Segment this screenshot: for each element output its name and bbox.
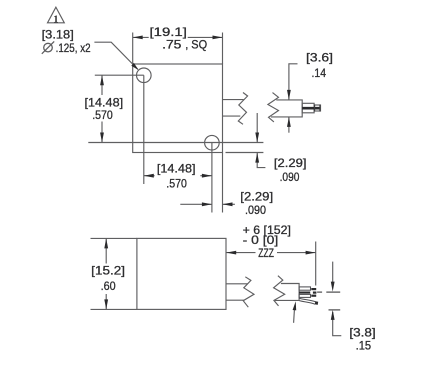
ZZZ dimension line right part: [277, 252, 316, 254]
triangle flag note 1: [48, 7, 65, 23]
dimension line 14.48 bottom: [144, 175, 155, 177]
svg-text:[15.2]: [15.2]: [91, 264, 125, 278]
svg-text:.14: .14: [312, 66, 327, 80]
pin tip end bars: [314, 105, 316, 112]
svg-text:.60: .60: [101, 279, 116, 293]
body outline rectangle (side view): [137, 238, 226, 309]
pin tip outline: [314, 105, 320, 111]
arrowhead 3.6 up: [287, 117, 291, 127]
svg-text:[2.29]: [2.29]: [274, 156, 307, 170]
svg-text:.090: .090: [280, 170, 300, 184]
break zigzag (top view wires): [238, 93, 247, 125]
arrowhead 2.29 mid right: [223, 202, 233, 206]
dimension 2.29 right upper shaft: [256, 113, 258, 143]
extension line vertical from top-left hole center: [143, 75, 145, 184]
svg-text:.125, x2: .125, x2: [56, 41, 91, 55]
diameter symbol slash: [42, 41, 54, 53]
svg-text:[3.8]: [3.8]: [349, 326, 375, 340]
arrowhead 3.8 down: [331, 282, 335, 292]
extension line top (15.2): [91, 237, 137, 239]
arrowhead 14.48 bottom right: [202, 174, 212, 178]
tick below bent lead (3.8): [329, 309, 341, 311]
dimension line 2.29 below square left part: [180, 203, 212, 205]
square bottom edge extension right: [226, 152, 264, 154]
dimension line 19.1 top: [133, 36, 149, 38]
pin side view body break zigzag: [268, 93, 279, 122]
bent bottom lead outline: [299, 298, 315, 304]
bottom lead pin tip solid: [311, 295, 316, 297]
arrowhead 2.29 right up: [255, 153, 259, 163]
hole top-left: [137, 68, 152, 83]
svg-text:.570: .570: [166, 176, 187, 190]
ZZZ dimension line left part: [226, 252, 255, 254]
extension line vertical from bottom-right hole center: [211, 143, 213, 213]
svg-text:ZZZ: ZZZ: [258, 246, 274, 260]
top lead pin tip solid: [311, 288, 316, 290]
svg-text:[14.48]: [14.48]: [157, 162, 196, 176]
arrowhead 2.29 mid left: [202, 202, 212, 206]
leader arrow shaft to bent lead: [293, 308, 296, 323]
dimension line 14.48 left: [101, 75, 103, 95]
arrowhead 3.6 down: [287, 90, 291, 100]
wire bottom (side view): [226, 299, 244, 301]
extension line horizontal at top-left hole center: [95, 74, 144, 76]
arrowhead 14.48 bottom left: [144, 174, 154, 178]
extension line left edge up (19.1 dim): [132, 33, 134, 65]
svg-text:.15: .15: [356, 339, 372, 353]
svg-text:[14.48]: [14.48]: [85, 95, 124, 109]
pin side view body: [271, 100, 302, 117]
dimension line 2.29 below square right part: [223, 203, 235, 205]
dimension line 15.2: [105, 238, 107, 263]
svg-text:.090: .090: [245, 203, 266, 217]
arrowhead 14.48 left bottom: [100, 133, 104, 143]
dimension 3.6 upper shaft with foot: [289, 64, 298, 100]
middle lead solid bar: [299, 292, 310, 294]
arrowhead 19.1 left: [133, 36, 143, 40]
hole bottom-right: [205, 135, 220, 150]
lead detail break zigzag: [274, 276, 285, 306]
middle lead tip solid: [313, 292, 317, 294]
extension line right edge up and down: [222, 33, 224, 65]
arrowhead 15.2 up: [104, 238, 108, 248]
arrowhead 3.8 up: [331, 310, 335, 320]
svg-text:, SQ: , SQ: [185, 37, 207, 51]
bent lead tip solid: [315, 301, 318, 305]
centerline dash-dot at lead cluster: [317, 291, 322, 293]
arrowhead ZZZ right: [306, 251, 316, 255]
wire top (top view): [223, 99, 244, 101]
dimension 3.8 upper shaft: [332, 262, 334, 284]
arrowhead 19.1 right: [213, 36, 223, 40]
arrowhead 15.2 down: [104, 299, 108, 309]
ZZZ extension line at lead tips: [315, 242, 317, 286]
dimension 3.8 lower shaft with foot: [333, 312, 342, 336]
svg-text:.75: .75: [162, 37, 182, 51]
svg-text:[3.18]: [3.18]: [42, 28, 74, 42]
body outline square (top view): [133, 64, 223, 153]
lead detail block: [275, 284, 299, 301]
svg-text:[2.29]: [2.29]: [240, 190, 273, 204]
wire top (side view): [226, 283, 248, 285]
break zigzag (side view wires): [243, 277, 254, 307]
svg-text:.570: .570: [92, 108, 113, 122]
svg-text:[3.6]: [3.6]: [306, 51, 333, 65]
dimension 2.29 right lower shaft and foot: [257, 153, 265, 168]
leader line for hole note: [94, 42, 137, 69]
top lead pin outline (detail): [299, 287, 310, 290]
pin rectangle: [302, 103, 314, 113]
arrowhead lead leader up: [293, 301, 297, 310]
wire bottom (top view): [223, 115, 241, 117]
extension line bottom (15.2): [91, 308, 137, 310]
arrowhead hole leader: [131, 63, 138, 70]
dimension 3.6 lower shaft: [288, 117, 290, 133]
pin centerline thick: [302, 107, 320, 110]
extension line horizontal through bottom-right hole center: [88, 142, 263, 144]
arrowhead 2.29 right down: [255, 133, 259, 143]
svg-text:- 0 [0]: - 0 [0]: [243, 233, 279, 247]
diameter symbol circle: [44, 43, 53, 52]
bottom lead pin outline (detail): [299, 294, 310, 297]
svg-text:1: 1: [53, 14, 58, 25]
arrowhead 14.48 left top: [100, 75, 104, 85]
arrowhead ZZZ left: [226, 251, 236, 255]
